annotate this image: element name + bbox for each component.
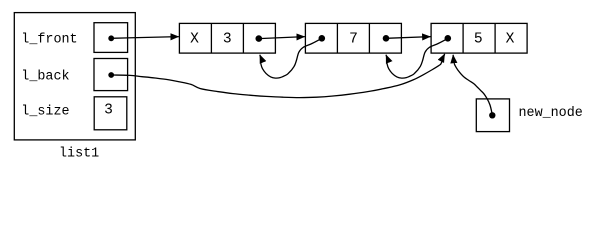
svg-text:X: X <box>190 31 199 47</box>
svg-text:5: 5 <box>474 31 483 47</box>
arrow node 2 prev to node 1 <box>260 38 322 78</box>
l_back pointer box <box>94 59 128 91</box>
arrow l_back to node 3 <box>111 54 445 98</box>
l_front pointer dot <box>108 35 114 41</box>
node 2 next dot <box>383 35 390 42</box>
node 3 prev dot <box>445 35 452 42</box>
list1 outer box <box>14 13 135 140</box>
arrow node 2 next to node 3 <box>386 37 431 39</box>
node 2 prev dot <box>319 35 326 42</box>
node 1 box <box>179 23 275 53</box>
svg-text:X: X <box>506 31 515 47</box>
svg-text:l_back: l_back <box>21 69 69 84</box>
arrow node 1 next to node 2 <box>259 37 305 39</box>
arrow node 3 prev to node 2 <box>386 38 448 78</box>
l_front pointer box <box>94 23 128 53</box>
new_node dot <box>489 112 495 118</box>
svg-text:list1: list1 <box>59 147 99 162</box>
node 3 box <box>431 23 527 53</box>
arrow l_front to node 1 <box>111 37 179 39</box>
svg-text:new_node: new_node <box>519 106 583 121</box>
node 2 box <box>305 23 401 53</box>
svg-text:3: 3 <box>223 31 232 47</box>
svg-text:3: 3 <box>104 103 113 119</box>
svg-text:l_front: l_front <box>21 32 77 47</box>
node 1 next dot <box>255 35 262 42</box>
arrow new_node to node 3 <box>453 55 492 115</box>
svg-text:7: 7 <box>349 31 358 47</box>
l_back pointer dot <box>108 72 114 78</box>
svg-text:l_size: l_size <box>21 105 69 120</box>
new_node box <box>476 99 509 132</box>
l_size value box <box>94 97 127 130</box>
